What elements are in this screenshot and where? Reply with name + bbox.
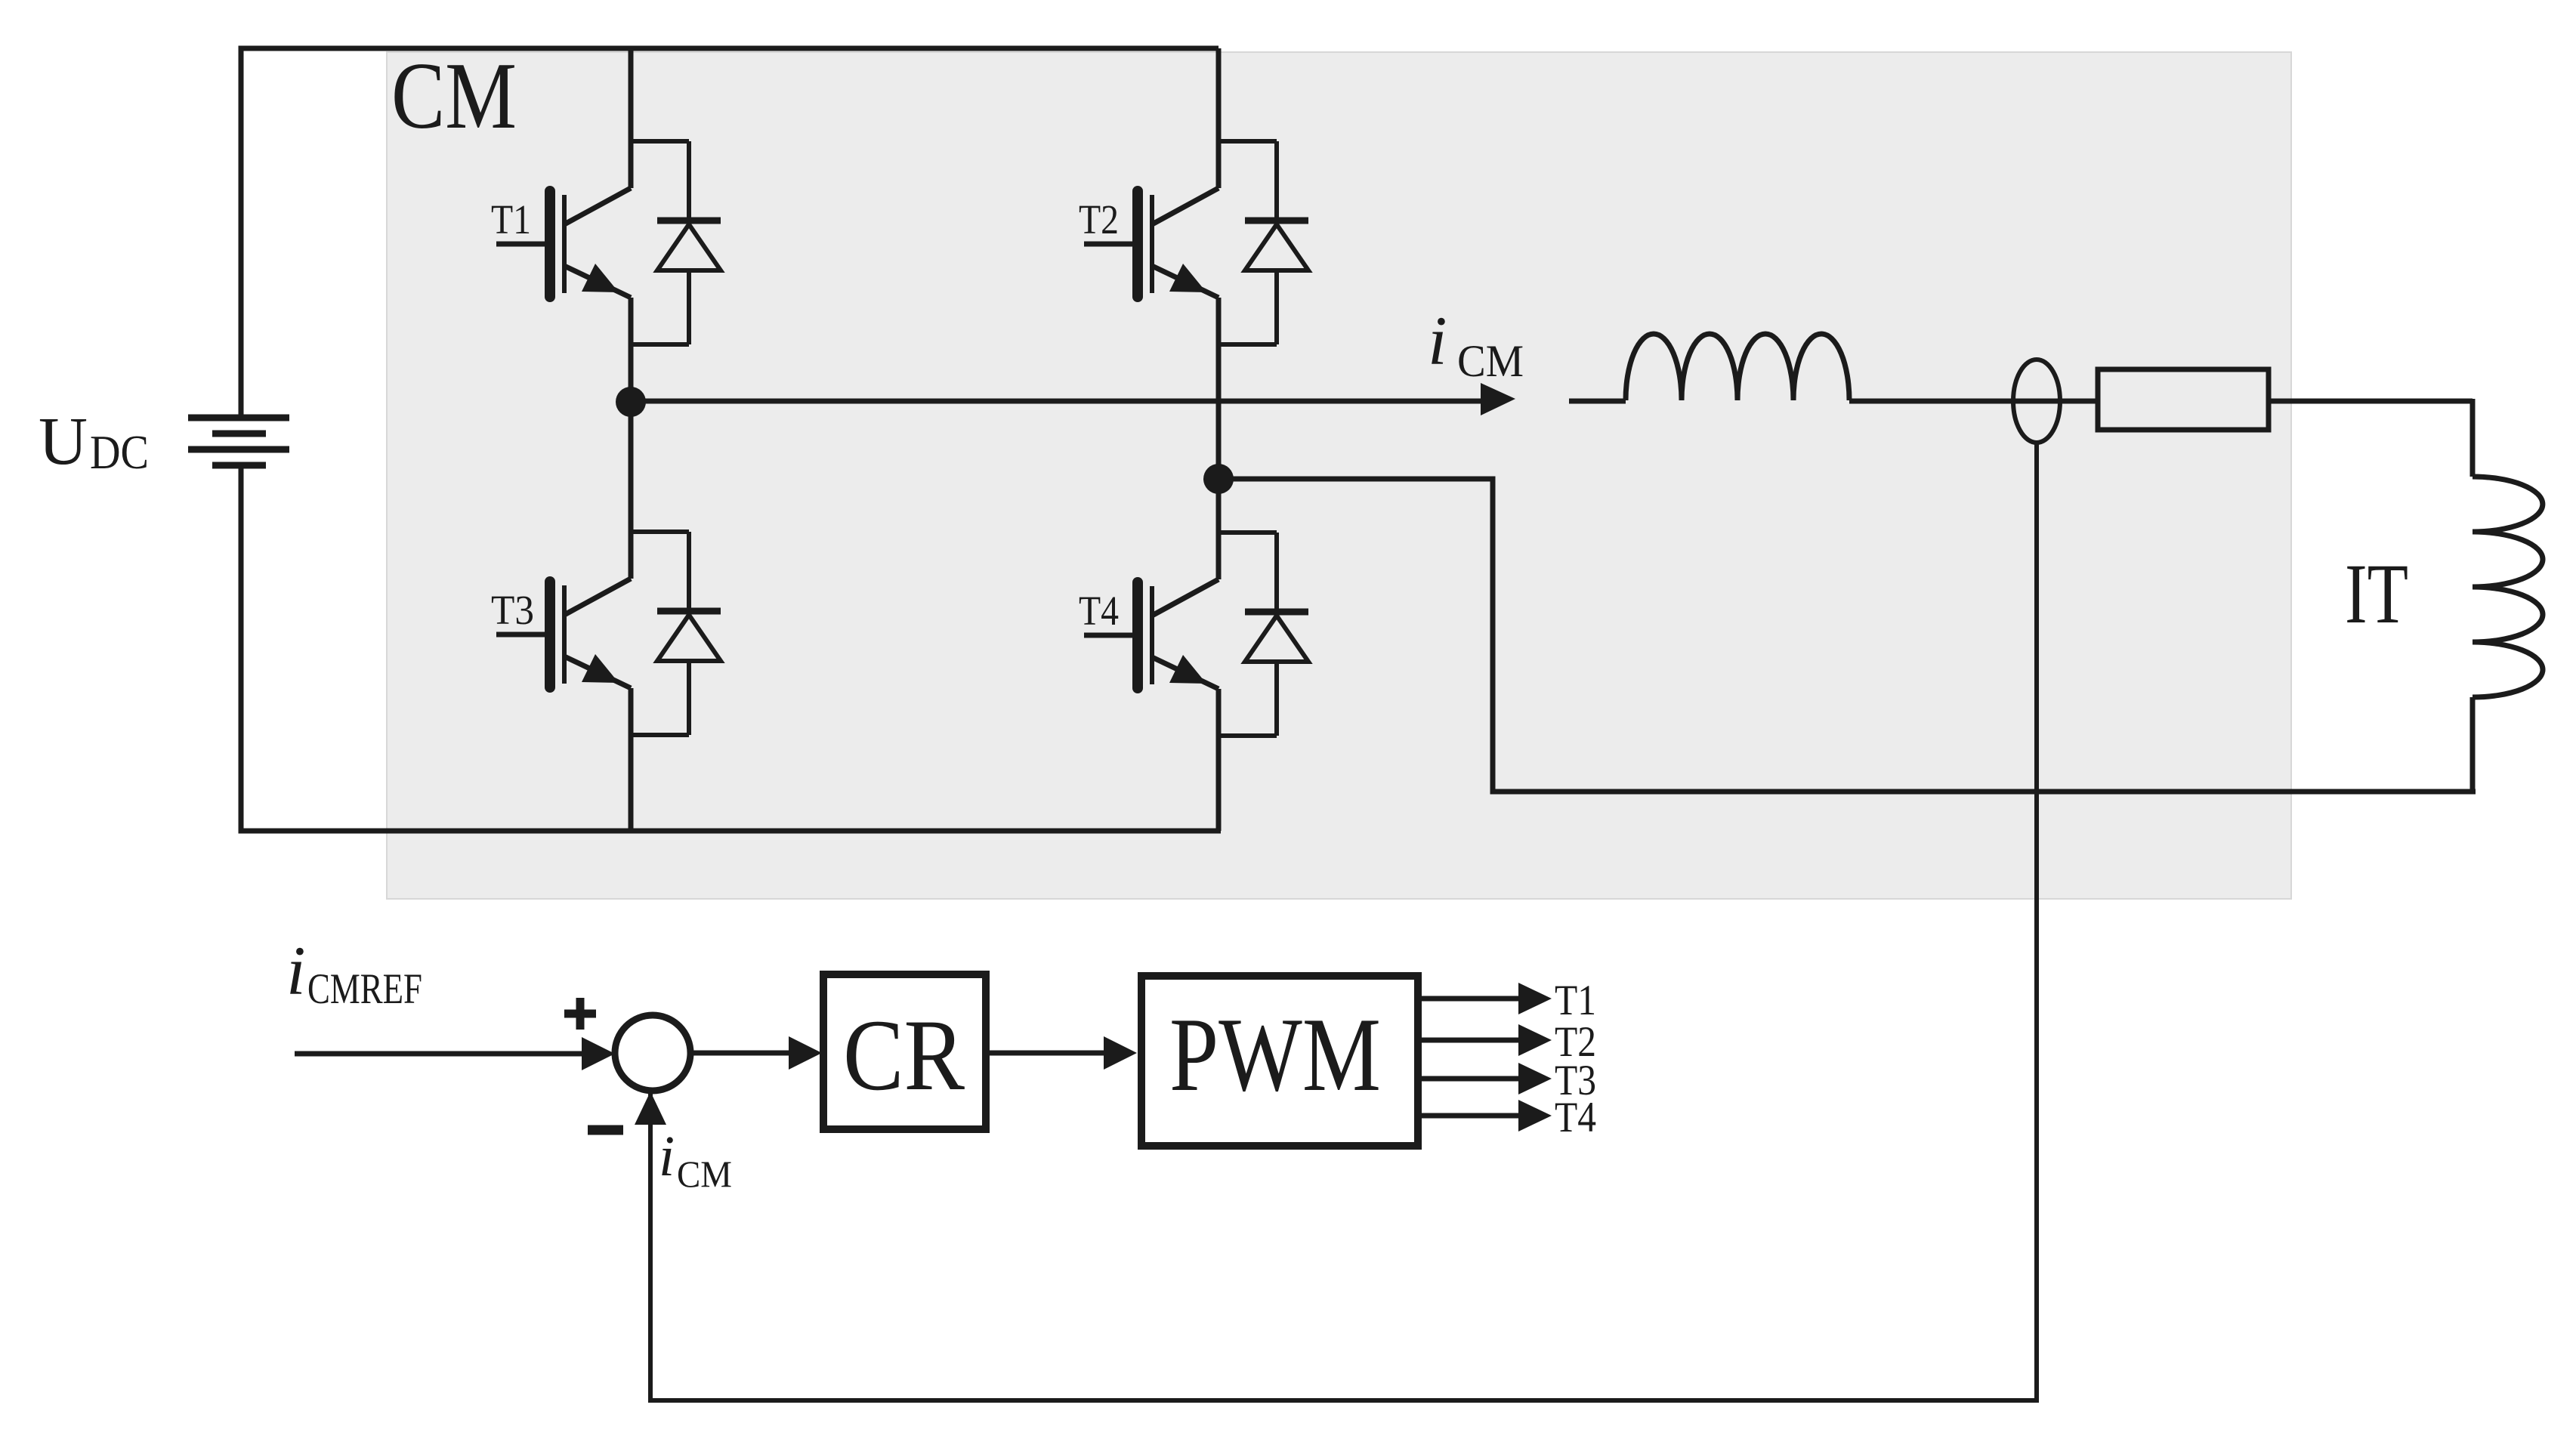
- arrowhead into CR: [789, 1036, 822, 1070]
- CM converter shaded region: [387, 52, 2291, 899]
- battery UDC plate short: [212, 431, 266, 437]
- wire: iCMREF input: [295, 1051, 583, 1057]
- plus sign: [564, 998, 596, 1030]
- svg-text:PWM: PWM: [1169, 996, 1381, 1113]
- svg-text:T2: T2: [1079, 196, 1119, 242]
- svg-text:IT: IT: [2345, 547, 2408, 641]
- wire: gate signal T1: [1418, 996, 1520, 1002]
- svg-text:i: i: [659, 1125, 675, 1188]
- svg-text:CM: CM: [677, 1153, 732, 1195]
- resistor R: [2098, 369, 2269, 430]
- wire: positive DC bus from battery to bridge top: [241, 48, 1219, 415]
- wire: IT load bottom lead: [2470, 697, 2476, 792]
- svg-text:i: i: [286, 932, 306, 1009]
- arrowhead feedback into summing junction: [635, 1091, 666, 1125]
- inductor L (common-mode choke): [1626, 334, 1849, 400]
- svg-text:U: U: [39, 404, 88, 479]
- node A junction dot: [616, 387, 646, 417]
- battery UDC plate short bottom: [212, 462, 266, 469]
- svg-text:T4: T4: [1079, 588, 1119, 634]
- transistor T3: [496, 532, 631, 735]
- PWM modulator box: [1141, 976, 1418, 1146]
- arrowhead gate T4: [1518, 1100, 1552, 1132]
- wire: CR to PWM: [986, 1051, 1105, 1056]
- arrowhead gate T2: [1518, 1024, 1552, 1056]
- diode D2: [1219, 141, 1308, 344]
- wire: output line from node A: [631, 399, 1482, 404]
- wire: phase leg B midpoint: [1216, 344, 1222, 533]
- arrowhead iCM direction: [1481, 383, 1515, 415]
- current sensor: [2013, 360, 2060, 443]
- battery UDC plate long: [188, 446, 289, 453]
- summing junction: [615, 1015, 690, 1091]
- transistor T2: [1084, 141, 1219, 344]
- svg-text:DC: DC: [90, 426, 149, 479]
- wire: phase leg A midpoint: [629, 344, 634, 532]
- diode D4: [1219, 533, 1308, 736]
- wire: return path from node B to IT: [1231, 479, 2476, 792]
- wire: T2 collector leg from top bus: [1216, 48, 1222, 141]
- wire: T4 emitter to bottom bus: [1216, 736, 1222, 831]
- node B junction dot: [1203, 464, 1234, 494]
- battery UDC plate long top: [188, 415, 289, 421]
- wire: error signal to CR: [690, 1051, 790, 1056]
- svg-text:CM: CM: [1457, 336, 1524, 386]
- inductor IT winding: [2473, 477, 2543, 697]
- svg-text:T3: T3: [491, 587, 534, 633]
- wire: output line continues to filter inductor: [1569, 399, 1626, 404]
- wire: IT load top lead: [2470, 399, 2476, 477]
- svg-text:CMREF: CMREF: [307, 965, 422, 1013]
- wire: T1 collector leg from top bus: [629, 48, 634, 141]
- diode D3: [631, 532, 721, 735]
- wire: gate signal T3: [1418, 1076, 1520, 1082]
- minus sign: [588, 1125, 623, 1135]
- wire: T3 emitter to bottom bus: [629, 735, 634, 831]
- CR controller box: [823, 974, 986, 1129]
- svg-text:T1: T1: [491, 196, 531, 242]
- wire: sensor feedback down and to summing junction: [650, 441, 2037, 1400]
- svg-text:CR: CR: [843, 999, 965, 1112]
- arrowhead gate T3: [1518, 1063, 1552, 1094]
- arrowhead gate T1: [1518, 983, 1552, 1014]
- diode D1: [631, 141, 721, 344]
- wire: negative DC bus from battery to bridge bottom: [241, 468, 1221, 831]
- svg-text:T1: T1: [1555, 977, 1596, 1024]
- arrowhead into summing junction: [582, 1037, 615, 1070]
- wire: inductor to resistor: [1849, 399, 2098, 404]
- transistor T1: [496, 141, 631, 344]
- svg-text:T4: T4: [1555, 1094, 1596, 1141]
- svg-text:CM: CM: [391, 44, 517, 149]
- transistor T4: [1084, 533, 1219, 736]
- svg-text:i: i: [1428, 302, 1447, 379]
- wire: resistor to IT load: [2269, 399, 2473, 404]
- wire: gate signal T2: [1418, 1038, 1520, 1043]
- wire: gate signal T4: [1418, 1113, 1520, 1119]
- arrowhead into PWM: [1104, 1036, 1137, 1070]
